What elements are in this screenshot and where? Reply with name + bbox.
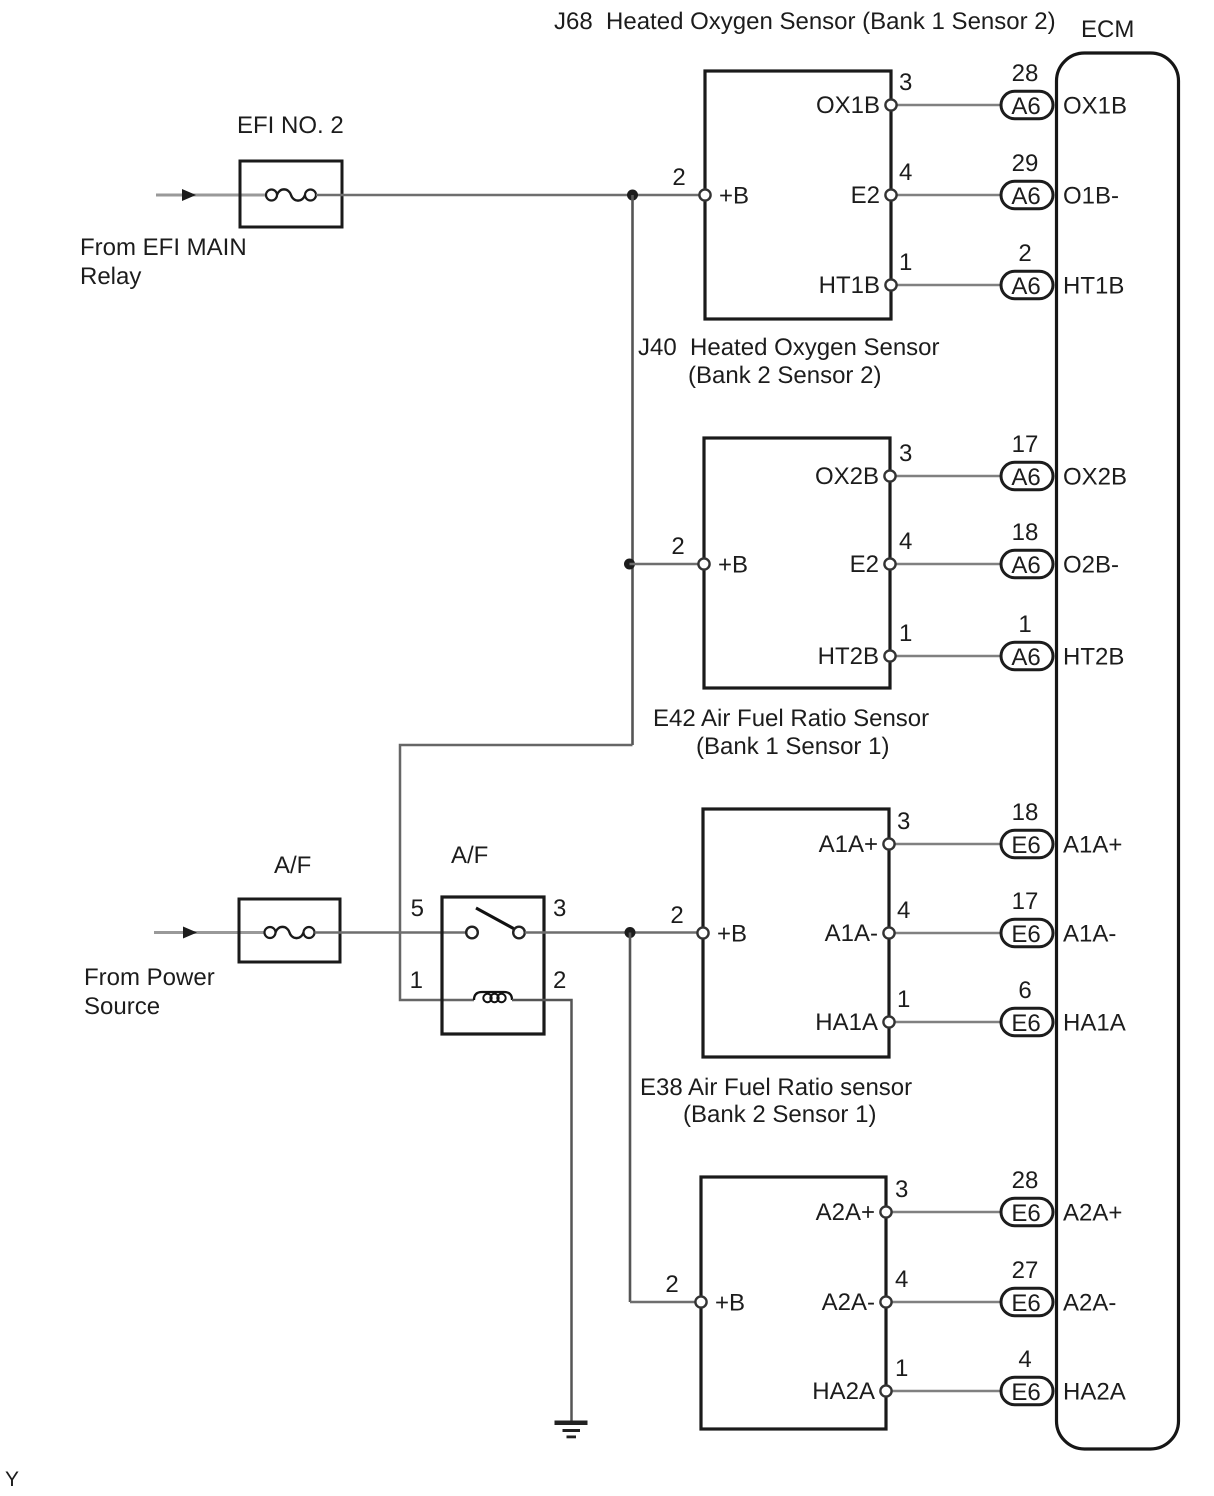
svg-text:HT2B: HT2B <box>818 643 879 670</box>
wire: elbow to +B of E38 <box>630 1301 697 1303</box>
svg-text:E2: E2 <box>851 182 880 209</box>
svg-text:3: 3 <box>899 440 912 467</box>
connector oval A6 pin 18 <box>1001 550 1053 578</box>
connector oval E6 pin 6 <box>1001 1008 1053 1036</box>
connector oval E6 pin 27 <box>1001 1288 1053 1316</box>
svg-text:2: 2 <box>672 164 685 191</box>
svg-text:2: 2 <box>671 533 684 560</box>
svg-text:A1A-: A1A- <box>825 920 878 947</box>
svg-text:17: 17 <box>1012 888 1039 915</box>
svg-text:4: 4 <box>897 897 910 924</box>
pin 3 of J68 <box>885 99 896 110</box>
svg-text:3: 3 <box>553 895 566 922</box>
wire: pin wires of J68 to ECM ovals <box>896 104 1001 106</box>
svg-text:HA2A: HA2A <box>812 1378 875 1405</box>
svg-text:E6: E6 <box>1011 832 1040 859</box>
svg-text:HA2A: HA2A <box>1063 1379 1126 1406</box>
svg-text:E6: E6 <box>1011 921 1040 948</box>
pin 4 of J68 <box>885 189 896 200</box>
svg-text:4: 4 <box>899 159 912 186</box>
svg-text:A1A+: A1A+ <box>819 831 878 858</box>
ground symbol <box>555 1421 588 1439</box>
svg-text:E6: E6 <box>1011 1379 1040 1406</box>
svg-text:(Bank 2 Sensor 2): (Bank 2 Sensor 2) <box>688 362 881 389</box>
svg-text:A/F: A/F <box>451 842 488 869</box>
junction node at EFI branch <box>627 190 638 201</box>
svg-text:1: 1 <box>899 620 912 647</box>
pin 2 (+B) of E42 <box>697 927 708 938</box>
fuse EFI NO. 2 <box>240 161 342 227</box>
svg-text:18: 18 <box>1012 799 1039 826</box>
svg-text:E38 Air Fuel Ratio sensor: E38 Air Fuel Ratio sensor <box>640 1074 912 1101</box>
svg-text:E6: E6 <box>1011 1200 1040 1227</box>
pin 1 of J68 <box>885 279 896 290</box>
svg-text:J40 Heated Oxygen Sensor: J40 Heated Oxygen Sensor <box>638 334 940 361</box>
wire: pin wires of E38 to ECM ovals <box>891 1211 1001 1213</box>
junction node at A/F branch <box>625 927 636 938</box>
svg-text:1: 1 <box>899 249 912 276</box>
svg-text:OX1B: OX1B <box>1063 93 1127 120</box>
ECM connector body U1 <box>1057 53 1179 1449</box>
svg-text:3: 3 <box>895 1176 908 1203</box>
svg-text:+B: +B <box>719 183 749 210</box>
svg-text:17: 17 <box>1012 431 1039 458</box>
relay coil L1 <box>474 992 512 1002</box>
svg-text:A1A-: A1A- <box>1063 921 1116 948</box>
svg-text:A6: A6 <box>1011 464 1040 491</box>
wire: fuse EFI to +B of J68 <box>316 194 700 196</box>
svg-text:5: 5 <box>411 895 424 922</box>
svg-text:+B: +B <box>715 1290 745 1317</box>
svg-text:HT1B: HT1B <box>819 272 880 299</box>
svg-text:2: 2 <box>553 967 566 994</box>
svg-text:EFI NO. 2: EFI NO. 2 <box>237 112 344 139</box>
connector oval A6 pin 2 <box>1001 271 1053 299</box>
pin 3 of E42 <box>883 838 894 849</box>
svg-text:A6: A6 <box>1011 273 1040 300</box>
connector oval A6 pin 28 <box>1001 91 1053 119</box>
svg-text:28: 28 <box>1012 60 1039 87</box>
fuse A/F <box>239 899 340 962</box>
svg-text:+B: +B <box>718 552 748 579</box>
pin 1 of E38 <box>880 1385 891 1396</box>
arrow on power lead <box>183 927 197 939</box>
svg-text:2: 2 <box>665 1271 678 1298</box>
svg-text:1: 1 <box>897 986 910 1013</box>
svg-text:E42 Air Fuel Ratio Sensor: E42 Air Fuel Ratio Sensor <box>653 705 929 732</box>
sensor connector box J68 <box>705 71 891 319</box>
relay switch contact right <box>513 927 525 939</box>
svg-text:29: 29 <box>1012 150 1039 177</box>
svg-text:1: 1 <box>410 967 423 994</box>
pin 2 (+B) of J40 <box>698 558 709 569</box>
svg-text:A6: A6 <box>1011 93 1040 120</box>
relay switch arm <box>476 908 514 929</box>
pin 2 (+B) of E38 <box>695 1296 706 1307</box>
connector oval E6 pin 28 <box>1001 1198 1053 1226</box>
svg-text:28: 28 <box>1012 1167 1039 1194</box>
svg-text:27: 27 <box>1012 1257 1039 1284</box>
arrow on EFI lead <box>182 189 196 201</box>
svg-text:(Bank 1 Sensor 1): (Bank 1 Sensor 1) <box>696 733 889 760</box>
svg-text:Relay: Relay <box>80 263 141 290</box>
pin 3 of E38 <box>880 1206 891 1217</box>
connector oval E6 pin 4 <box>1001 1377 1053 1405</box>
connector oval A6 pin 17 <box>1001 462 1053 490</box>
svg-text:E6: E6 <box>1011 1010 1040 1037</box>
svg-text:A/F: A/F <box>274 852 311 879</box>
svg-text:3: 3 <box>899 69 912 96</box>
relay switch contact left <box>466 927 478 939</box>
svg-text:1: 1 <box>1018 611 1031 638</box>
relay A/F box K1 <box>442 897 544 1034</box>
wire: EFI branch elbow down to relay coil pin 1 <box>400 745 633 1000</box>
connector oval E6 pin 18 <box>1001 830 1053 858</box>
svg-text:2: 2 <box>1018 240 1031 267</box>
svg-text:4: 4 <box>1018 1346 1031 1373</box>
svg-text:E6: E6 <box>1011 1290 1040 1317</box>
svg-text:A6: A6 <box>1011 644 1040 671</box>
svg-text:1: 1 <box>895 1355 908 1382</box>
sensor connector box E38 <box>701 1177 886 1429</box>
pin 1 of J40 <box>884 650 895 661</box>
svg-text:A2A-: A2A- <box>1063 1290 1116 1317</box>
svg-text:A6: A6 <box>1011 183 1040 210</box>
svg-text:A2A+: A2A+ <box>816 1199 875 1226</box>
connector oval E6 pin 17 <box>1001 919 1053 947</box>
connector oval A6 pin 29 <box>1001 181 1053 209</box>
svg-text:(Bank 2 Sensor 1): (Bank 2 Sensor 1) <box>683 1101 876 1128</box>
wire: lead from power source <box>154 931 265 934</box>
svg-text:E2: E2 <box>850 551 879 578</box>
svg-text:J68 Heated Oxygen Sensor (Ban: J68 Heated Oxygen Sensor (Bank 1 Sensor … <box>554 8 1056 35</box>
svg-text:4: 4 <box>895 1266 908 1293</box>
svg-text:HA1A: HA1A <box>815 1009 878 1036</box>
pin 4 of E38 <box>880 1296 891 1307</box>
wire: relay pin 3 to A/F junction and +B of E42 <box>525 931 700 933</box>
svg-text:A1A+: A1A+ <box>1063 832 1122 859</box>
svg-text:2: 2 <box>670 902 683 929</box>
wire: vertical A/F branch down <box>629 933 632 1303</box>
svg-text:HT1B: HT1B <box>1063 273 1124 300</box>
svg-text:A2A-: A2A- <box>822 1289 875 1316</box>
svg-text:Y: Y <box>5 1468 19 1491</box>
wire: lead from EFI MAIN relay <box>156 194 266 197</box>
wire: vertical EFI branch down <box>631 195 634 745</box>
wire: relay pin 2 to ground <box>512 1000 572 1421</box>
pin 2 (+B) of J68 <box>699 189 710 200</box>
svg-text:OX1B: OX1B <box>816 92 880 119</box>
svg-text:OX2B: OX2B <box>1063 464 1127 491</box>
sensor connector box J40 <box>704 438 890 688</box>
svg-text:Source: Source <box>84 993 160 1020</box>
svg-text:O2B-: O2B- <box>1063 552 1119 579</box>
svg-text:HT2B: HT2B <box>1063 644 1124 671</box>
svg-text:From EFI MAIN: From EFI MAIN <box>80 234 247 261</box>
pin 3 of J40 <box>884 470 895 481</box>
svg-text:A6: A6 <box>1011 552 1040 579</box>
svg-text:6: 6 <box>1018 977 1031 1004</box>
svg-text:OX2B: OX2B <box>815 463 879 490</box>
pin 4 of J40 <box>884 558 895 569</box>
svg-text:A2A+: A2A+ <box>1063 1200 1122 1227</box>
pin 1 of E42 <box>883 1016 894 1027</box>
svg-text:HA1A: HA1A <box>1063 1010 1126 1037</box>
svg-text:4: 4 <box>899 528 912 555</box>
pin 4 of E42 <box>883 927 894 938</box>
wire: pin wires of J40 to ECM ovals <box>895 475 1001 477</box>
svg-text:3: 3 <box>897 808 910 835</box>
svg-text:+B: +B <box>717 921 747 948</box>
sensor connector box E42 <box>703 809 889 1057</box>
svg-text:O1B-: O1B- <box>1063 183 1119 210</box>
wire: pin wires of E42 to ECM ovals <box>894 843 1001 845</box>
junction node at J40 +B <box>624 559 635 570</box>
wire: branch to +B of J40 <box>630 563 700 565</box>
svg-text:18: 18 <box>1012 519 1039 546</box>
connector oval A6 pin 1 <box>1001 642 1053 670</box>
wire: fuse A/F to relay contact <box>315 931 468 933</box>
svg-text:ECM: ECM <box>1081 16 1134 43</box>
svg-text:From Power: From Power <box>84 964 215 991</box>
